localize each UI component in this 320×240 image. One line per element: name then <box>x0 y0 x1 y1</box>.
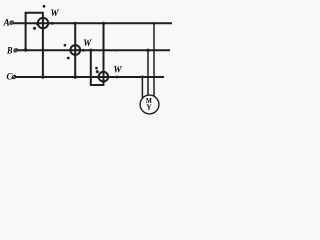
svg-text:A: A <box>2 17 9 27</box>
wire: W1 bracket vertical down to line B <box>25 12 27 50</box>
junction: line A drop <box>153 22 156 25</box>
terminal B <box>14 48 18 52</box>
polarity dot upper-left of W3 (inner) <box>96 70 99 73</box>
junction: W1 bracket on line B <box>24 48 27 51</box>
wire: phase line B <box>17 49 170 51</box>
wire: W1 bracket horizontal <box>25 12 44 14</box>
wire: drop of line C to motor <box>141 77 143 98</box>
wire: drop of line A to motor <box>153 23 155 97</box>
svg-text:C: C <box>7 71 14 81</box>
wire: phase line A <box>13 22 172 24</box>
junction: W3 bracket on line B <box>89 49 92 52</box>
polarity dot lower-left of W1 <box>33 27 36 30</box>
wire: W3 bracket vertical up to line B <box>90 50 92 86</box>
terminal A <box>10 21 14 25</box>
junction: W2 vertical on line A <box>74 22 77 25</box>
polarity dot lower-left of W2 <box>67 57 70 60</box>
junction: W1 vertical on line C <box>41 75 44 78</box>
wire: phase line C <box>16 76 164 78</box>
polarity dot on line A left of W1 <box>36 22 39 25</box>
wire: W2 voltage-coil vertical (line A to line C) <box>74 23 76 79</box>
paper background <box>0 0 183 121</box>
polarity dot upper-left of W3 (outer) <box>95 67 98 70</box>
motor M circle <box>140 95 159 114</box>
wattmeter W2 circle <box>70 45 80 55</box>
svg-text:B: B <box>6 45 12 55</box>
speck on line B <box>115 51 116 52</box>
svg-text:W: W <box>83 38 92 48</box>
junction: W2 vertical on line C <box>74 75 77 78</box>
junction: W3 bracket crossing line C <box>90 76 92 78</box>
wire: W3 voltage-coil vertical (line A down to W3) <box>103 22 105 85</box>
polarity dot above W1 bracket <box>43 5 46 8</box>
junction: line B drop <box>146 49 149 52</box>
junction: W3 vertical on line A <box>102 22 105 25</box>
wire: drop of line B to motor <box>147 50 149 95</box>
terminal C <box>12 75 16 79</box>
svg-text:W: W <box>51 8 60 18</box>
wattmeter W1 circle <box>38 18 48 28</box>
polarity dot upper-left of W2 <box>64 44 67 47</box>
junction: line C drop <box>141 76 144 79</box>
wattmeter W3 circle <box>99 72 109 82</box>
wire: W3 bracket horizontal (below) <box>90 84 104 86</box>
polarity dot on line A right of W1 <box>51 22 54 25</box>
polarity dot on line C right of W3 <box>116 76 119 79</box>
svg-text:W: W <box>114 64 123 74</box>
polarity dot on line B right of W2 <box>82 49 85 52</box>
wire: W1 voltage-coil vertical (bracket top to line C) <box>42 13 44 79</box>
svg-text:Y: Y <box>146 103 152 112</box>
end blob of line C <box>162 76 164 78</box>
